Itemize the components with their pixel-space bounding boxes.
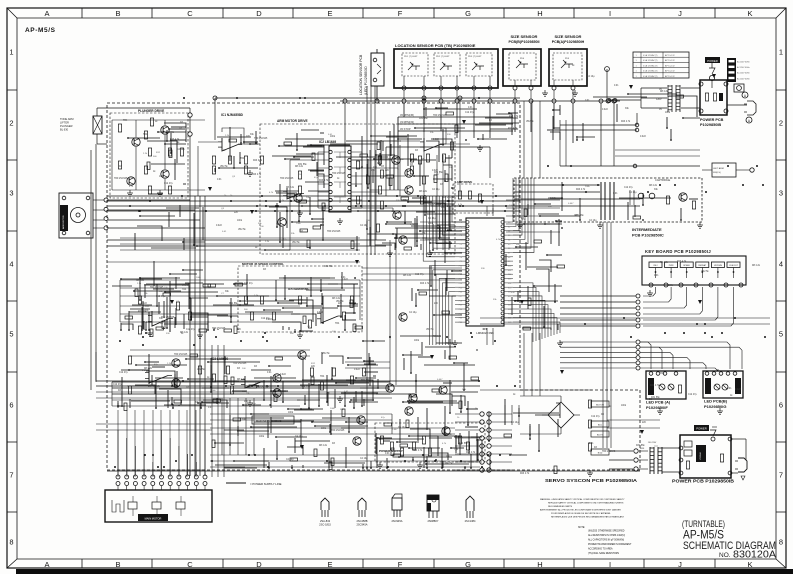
svg-text:SERVO SYSCON PCB P1029850IA: SERVO SYSCON PCB P1029850IA xyxy=(545,478,638,484)
svg-text:0.022: 0.022 xyxy=(433,139,439,141)
svg-text:C4 10µ: C4 10µ xyxy=(409,312,417,314)
wire xyxy=(531,333,533,396)
svg-text:ACCORDING TO AREA: ACCORDING TO AREA xyxy=(588,548,613,551)
wire xyxy=(107,210,520,212)
wire xyxy=(211,345,213,477)
ground xyxy=(542,90,548,96)
component value labels texture 2 xyxy=(113,65,761,475)
IC2 pin xyxy=(329,190,332,193)
svg-text:BLK/Y: BLK/Y xyxy=(597,435,604,437)
svg-text:R31 56k: R31 56k xyxy=(434,172,443,174)
svg-text:C12 47µ: C12 47µ xyxy=(425,239,434,241)
svg-text:C12 47µ: C12 47µ xyxy=(688,394,697,396)
svg-text:C4 10µ: C4 10µ xyxy=(398,427,406,429)
connector pins under size sensors xyxy=(513,86,517,90)
svg-text:C12 47µ: C12 47µ xyxy=(186,329,195,331)
wire xyxy=(456,76,458,86)
transistor Q21 xyxy=(679,193,687,201)
servo syscon PCB dashed outline xyxy=(107,103,640,470)
ground xyxy=(657,408,663,414)
ground xyxy=(297,332,303,338)
wire xyxy=(488,399,560,474)
wire xyxy=(553,80,555,86)
IC2 pin xyxy=(329,158,332,161)
wire xyxy=(440,76,442,86)
wire xyxy=(120,237,360,239)
wire xyxy=(572,80,574,86)
wire xyxy=(143,410,145,477)
svg-text:P12: P12 xyxy=(459,274,462,276)
svg-text:PLUNGER: PLUNGER xyxy=(60,124,73,128)
ground xyxy=(387,250,393,256)
LED D2 xyxy=(668,384,674,390)
wire xyxy=(108,199,190,201)
svg-text:2SC1384: 2SC1384 xyxy=(465,519,476,523)
IC2 pin xyxy=(329,198,332,201)
svg-text:R8 2.2k: R8 2.2k xyxy=(649,185,658,187)
wire xyxy=(670,268,672,279)
IC2 pin xyxy=(348,190,351,193)
wire xyxy=(473,90,475,99)
ground xyxy=(417,462,423,468)
svg-text:D: D xyxy=(256,9,262,18)
svg-text:R23 4.7k: R23 4.7k xyxy=(576,189,586,191)
wire xyxy=(560,93,700,141)
wire xyxy=(486,328,488,345)
svg-text:0.01: 0.01 xyxy=(614,85,619,87)
svg-text:K13: K13 xyxy=(508,279,511,281)
AC input connector xyxy=(727,58,736,82)
wire xyxy=(423,107,518,141)
LED PCB (A) pins xyxy=(649,372,653,376)
ground xyxy=(297,210,303,216)
svg-text:0.5A 125VAC(T): 0.5A 125VAC(T) xyxy=(643,70,658,73)
wire xyxy=(420,227,466,229)
svg-text:SIZE SENSOR: SIZE SENSOR xyxy=(555,34,582,39)
connector xyxy=(634,449,638,471)
wire xyxy=(134,410,136,477)
wire xyxy=(520,395,561,397)
wire xyxy=(539,333,541,396)
svg-text:LEFT ARM: LEFT ARM xyxy=(713,167,724,170)
ground xyxy=(247,170,253,176)
wire xyxy=(727,104,747,106)
key board PCB outline xyxy=(642,256,746,285)
wire xyxy=(351,175,362,177)
wire xyxy=(397,117,399,190)
wire xyxy=(423,98,425,196)
wire xyxy=(351,199,362,201)
svg-text:R8 2.2k: R8 2.2k xyxy=(660,262,669,264)
earth mark A xyxy=(742,92,748,98)
wire xyxy=(639,459,648,461)
syscon to power connector xyxy=(480,412,484,416)
wire xyxy=(376,49,378,53)
wire xyxy=(473,76,475,86)
svg-text:REJ: REJ xyxy=(654,265,658,267)
svg-text:LOCATION SENSOR PCB (TB) P102: LOCATION SENSOR PCB (TB) P1029850IE xyxy=(395,43,476,48)
svg-text:7: 7 xyxy=(779,471,783,480)
svg-text:R23 4.7k: R23 4.7k xyxy=(508,128,518,130)
connector xyxy=(116,482,207,486)
transistor Q2 xyxy=(161,126,169,134)
transistor package drawing 2SC458B xyxy=(358,498,366,510)
wire xyxy=(396,394,480,469)
svg-text:F: F xyxy=(398,9,403,18)
svg-text:R31 56k: R31 56k xyxy=(361,380,370,382)
svg-text:TR9 2SC945: TR9 2SC945 xyxy=(114,178,128,180)
svg-text:KEY BOARD PCB P1029850IJ: KEY BOARD PCB P1029850IJ xyxy=(645,249,711,254)
svg-text:ARM MOTOR DRIVE: ARM MOTOR DRIVE xyxy=(277,119,308,123)
IC2 pin xyxy=(348,182,351,185)
ground xyxy=(197,332,203,338)
ground xyxy=(377,462,383,468)
main motor internals xyxy=(128,502,137,509)
svg-text:TONE ARM: TONE ARM xyxy=(60,117,74,121)
svg-text:IC2 LB1649: IC2 LB1649 xyxy=(319,140,336,144)
svg-text:3: 3 xyxy=(779,189,783,198)
svg-text:E: E xyxy=(327,560,332,569)
transistor Q18 xyxy=(357,416,365,424)
wire xyxy=(112,381,390,383)
svg-text:P1029850IG: P1029850IG xyxy=(704,404,726,409)
junction xyxy=(458,96,462,100)
svg-text:J: J xyxy=(678,9,682,18)
svg-text:PD1 (T) LEFT: PD1 (T) LEFT xyxy=(404,56,418,58)
earth mark A 2 xyxy=(746,117,752,123)
pin xyxy=(728,437,732,441)
wire xyxy=(189,470,191,476)
wire xyxy=(112,405,300,407)
ground xyxy=(517,222,523,228)
svg-text:TR9 2SC945: TR9 2SC945 xyxy=(212,328,226,330)
wire xyxy=(107,245,386,247)
wire xyxy=(130,349,310,351)
svg-text:K5: K5 xyxy=(508,244,510,246)
wire xyxy=(120,295,360,297)
ground xyxy=(597,222,603,228)
svg-text:3: 3 xyxy=(9,189,13,198)
svg-text:IC5 NJM4558S: IC5 NJM4558S xyxy=(288,287,309,291)
ground xyxy=(647,290,653,296)
svg-text:LED PCB(B): LED PCB(B) xyxy=(704,399,728,404)
svg-text:PWR: PWR xyxy=(669,265,674,267)
connector xyxy=(104,198,108,230)
svg-text:BL 630: BL 630 xyxy=(60,128,69,132)
AC plug xyxy=(747,101,756,115)
transistor Q7 xyxy=(392,156,400,164)
svg-text:TR4: TR4 xyxy=(660,373,665,375)
svg-text:0.5A 125VAC(T): 0.5A 125VAC(T) xyxy=(643,75,658,78)
wire xyxy=(420,221,466,223)
svg-text:1: 1 xyxy=(779,48,783,57)
svg-text:K17: K17 xyxy=(508,296,511,298)
wire xyxy=(120,313,300,315)
junction xyxy=(422,96,426,100)
wire xyxy=(511,405,513,425)
wire xyxy=(610,222,612,448)
transistor Q23 xyxy=(405,407,413,415)
wire xyxy=(318,151,329,153)
svg-text:POWER PCB: POWER PCB xyxy=(700,118,724,122)
wire xyxy=(389,131,391,196)
svg-text:0.047: 0.047 xyxy=(568,203,574,205)
wire xyxy=(351,151,362,153)
bottom scan shadow bar xyxy=(16,569,793,574)
svg-text:5: 5 xyxy=(9,330,13,339)
svg-text:P8: P8 xyxy=(460,257,462,259)
arm motor unit outline xyxy=(59,193,93,238)
wire xyxy=(514,205,640,207)
transistor Q14 xyxy=(298,351,306,359)
transistor package drawing 2SC1384 xyxy=(466,496,474,511)
wire xyxy=(702,169,712,171)
wire xyxy=(212,408,392,469)
svg-text:P9: P9 xyxy=(460,261,462,263)
wire xyxy=(117,410,119,477)
bridge rectifier xyxy=(548,402,574,428)
wire xyxy=(318,183,329,185)
LED D4 xyxy=(722,384,728,390)
strobe black label xyxy=(735,378,741,394)
svg-text:0.022: 0.022 xyxy=(317,312,323,314)
wire xyxy=(480,389,592,391)
svg-text:100k: 100k xyxy=(414,340,420,342)
svg-text:TR9 2SC945: TR9 2SC945 xyxy=(233,363,247,365)
svg-text:R8 2.2k: R8 2.2k xyxy=(446,343,455,345)
wire xyxy=(423,76,425,86)
wire xyxy=(210,419,392,421)
svg-text:UNLESS OTHERWISE SPECIFIED: UNLESS OTHERWISE SPECIFIED xyxy=(588,531,625,533)
svg-text:45 STOP: 45 STOP xyxy=(400,127,411,131)
connector xyxy=(636,294,640,328)
wire xyxy=(379,429,482,461)
wire xyxy=(506,223,560,225)
svg-text:100k: 100k xyxy=(441,207,447,209)
wire xyxy=(210,466,480,468)
svg-text:P15: P15 xyxy=(459,287,462,289)
wire xyxy=(362,273,462,275)
wire xyxy=(607,419,660,421)
svg-text:R31 56k: R31 56k xyxy=(459,443,468,445)
wire xyxy=(96,391,392,393)
svg-text:K15: K15 xyxy=(508,287,511,289)
wire xyxy=(639,468,648,470)
svg-text:AC120V 60Hz: AC120V 60Hz xyxy=(737,72,750,75)
33rpm black label xyxy=(705,378,711,394)
svg-text:100k: 100k xyxy=(159,176,165,178)
svg-text:R23 4.7k: R23 4.7k xyxy=(252,174,262,176)
wire xyxy=(506,215,560,217)
wire xyxy=(107,205,520,207)
wire xyxy=(215,127,258,172)
svg-text:R8 2.2k: R8 2.2k xyxy=(144,368,153,370)
svg-text:TR4: TR4 xyxy=(143,134,148,136)
sensor bus line xyxy=(340,100,620,102)
wire xyxy=(455,413,480,415)
svg-text:R23 4.7k: R23 4.7k xyxy=(621,121,631,123)
wire xyxy=(112,119,205,121)
wire xyxy=(112,393,390,395)
wire xyxy=(448,155,450,250)
wire xyxy=(459,98,461,196)
wire xyxy=(731,438,746,440)
svg-text:K6: K6 xyxy=(508,248,510,250)
small option boxes xyxy=(591,401,609,407)
LED D3 xyxy=(714,384,720,390)
ground xyxy=(337,218,343,224)
wire xyxy=(504,405,506,425)
resistor xyxy=(150,118,153,126)
svg-text:R23 4.7k: R23 4.7k xyxy=(253,160,263,162)
transistor Q1 xyxy=(132,138,140,146)
svg-text:TR4: TR4 xyxy=(276,224,281,226)
svg-text:C12 47µ: C12 47µ xyxy=(113,384,122,386)
svg-text:WARNING: ⚠INDICATES SAFETY CRI: WARNING: ⚠INDICATES SAFETY CRITICAL COMP… xyxy=(540,498,625,501)
svg-text:INTERMEDIATE: INTERMEDIATE xyxy=(632,227,662,232)
wire xyxy=(126,410,128,477)
grid column letters bottom xyxy=(44,559,752,569)
svg-text:C4 10µ: C4 10µ xyxy=(511,422,519,424)
transistor Q6 xyxy=(278,218,286,226)
transistor package drawing 2SC945A xyxy=(392,498,402,510)
wire xyxy=(473,103,475,138)
wire xyxy=(514,184,600,186)
wire xyxy=(456,103,458,138)
svg-text:K: K xyxy=(747,9,752,18)
op-amp IC4 xyxy=(245,376,261,388)
svg-text:TR9 2SC945: TR9 2SC945 xyxy=(433,115,447,117)
svg-text:K20: K20 xyxy=(508,309,511,311)
key switch CUE/CUT xyxy=(727,262,740,268)
svg-text:2SC458B: 2SC458B xyxy=(356,519,367,523)
wire xyxy=(492,328,494,345)
pin xyxy=(728,471,732,475)
svg-text:K0: K0 xyxy=(508,222,510,224)
wire xyxy=(118,469,205,471)
svg-text:C4 10µ: C4 10µ xyxy=(432,189,440,191)
IC2 pin xyxy=(329,182,332,185)
svg-text:APT-5-132: APT-5-132 xyxy=(665,54,675,57)
ground xyxy=(127,190,133,196)
wire xyxy=(237,398,239,455)
wire xyxy=(366,86,368,255)
svg-text:SPEED: SPEED xyxy=(683,265,690,267)
junction xyxy=(188,113,192,117)
wire xyxy=(403,103,405,117)
svg-text:AC120V 60Hz: AC120V 60Hz xyxy=(737,66,750,69)
wire xyxy=(602,222,604,448)
transistor Q16 xyxy=(273,389,281,397)
wire xyxy=(199,196,201,476)
svg-text:R23 4.7k: R23 4.7k xyxy=(301,386,311,388)
IC2 pin xyxy=(329,206,332,209)
connector xyxy=(116,475,207,479)
photo-sensor PD5 xyxy=(561,64,573,68)
wire xyxy=(530,90,532,99)
svg-text:0.01: 0.01 xyxy=(217,179,222,181)
svg-text:VR2 5k: VR2 5k xyxy=(292,242,300,244)
transistor Q8 xyxy=(405,169,413,177)
svg-text:TR4: TR4 xyxy=(240,158,245,160)
resistors IC3 area xyxy=(128,356,131,364)
arm motor drive block xyxy=(260,124,455,254)
svg-text:R8 2.2k: R8 2.2k xyxy=(403,275,412,277)
wire xyxy=(414,107,560,140)
photo-sensor PD4 xyxy=(516,64,528,68)
svg-text:0.022: 0.022 xyxy=(141,303,147,305)
connector xyxy=(636,340,640,370)
svg-text:P5: P5 xyxy=(460,244,462,246)
resistors around IC1a xyxy=(212,156,215,164)
wire xyxy=(440,90,442,99)
resistor xyxy=(148,186,151,194)
resistor xyxy=(148,148,151,156)
svg-text:0.01: 0.01 xyxy=(727,388,732,390)
svg-text:C4 10µ: C4 10µ xyxy=(360,225,368,227)
key switch PWR xyxy=(665,262,678,268)
ground xyxy=(157,190,163,196)
transistor Q25 xyxy=(399,313,407,321)
wire xyxy=(686,268,688,279)
wire xyxy=(107,200,520,202)
svg-text:UP/DWN: UP/DWN xyxy=(714,265,723,267)
wire xyxy=(523,333,525,398)
svg-text:PCB(A)P1029850IH: PCB(A)P1029850IH xyxy=(552,40,585,44)
connector pins under TB board xyxy=(402,86,406,90)
ground xyxy=(572,90,578,96)
svg-text:TR9 2SC945: TR9 2SC945 xyxy=(327,231,341,233)
transistor Q19 xyxy=(386,384,394,392)
key switch REJ xyxy=(649,262,662,268)
wire xyxy=(152,410,154,477)
wire xyxy=(139,269,362,333)
junction xyxy=(607,99,611,103)
transistor Q4 xyxy=(161,170,169,178)
wire xyxy=(524,182,698,221)
wire xyxy=(117,354,376,407)
svg-text:C4 10µ: C4 10µ xyxy=(295,436,303,438)
svg-text:C4 10µ: C4 10µ xyxy=(428,218,436,220)
junction xyxy=(635,128,639,132)
wire xyxy=(275,146,325,249)
svg-text:APT-5-132: APT-5-132 xyxy=(665,70,675,73)
svg-text:REPLACE SAFETY CRITICAL COMPON: REPLACE SAFETY CRITICAL COMPONENTS ONLY … xyxy=(548,502,624,505)
wire xyxy=(514,80,516,86)
svg-text:R31 56k: R31 56k xyxy=(324,266,333,268)
wire xyxy=(506,207,560,209)
wire xyxy=(442,155,444,250)
wire xyxy=(352,159,392,161)
wire xyxy=(95,352,97,381)
wire xyxy=(539,101,541,178)
svg-text:PLUNGER DRIVE: PLUNGER DRIVE xyxy=(138,109,164,113)
svg-text:8: 8 xyxy=(779,538,783,547)
op-amp IC5b xyxy=(321,309,338,323)
wire xyxy=(530,80,532,86)
feedback wire IC1a xyxy=(222,128,244,144)
wire xyxy=(118,352,378,409)
power transformer T1 xyxy=(668,85,672,87)
svg-text:AC120V 60Hz: AC120V 60Hz xyxy=(737,77,750,80)
svg-text:P23: P23 xyxy=(459,322,462,324)
svg-text:0.01: 0.01 xyxy=(244,401,249,403)
wire xyxy=(96,429,212,431)
svg-text:P14: P14 xyxy=(459,283,462,285)
wire xyxy=(121,277,356,332)
IC7 system controller outline xyxy=(466,218,504,326)
svg-text:P19: P19 xyxy=(459,305,462,307)
